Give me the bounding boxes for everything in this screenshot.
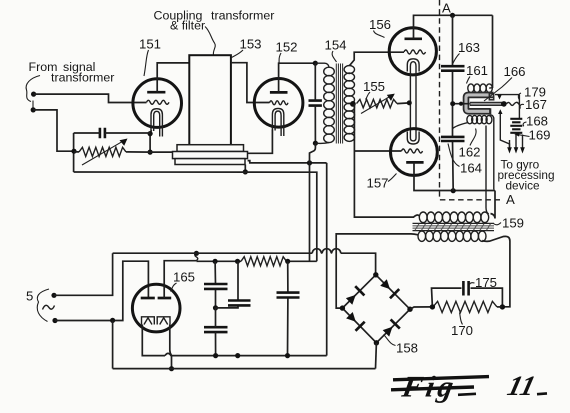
section line A-A dashed <box>440 0 503 200</box>
svg-text:transformer: transformer <box>211 9 274 23</box>
plate of V156 <box>405 37 423 40</box>
capacitor (grid RC) plates <box>100 128 105 139</box>
arrow of R155 <box>361 96 391 114</box>
svg-text:165: 165 <box>173 270 195 285</box>
svg-text:156: 156 <box>369 17 391 32</box>
node resistor right junction <box>148 150 153 155</box>
input brace <box>26 76 40 108</box>
output arrows to gyro <box>510 135 523 149</box>
transformer T154 primary coil <box>324 67 335 142</box>
diode bottom-right <box>383 327 393 337</box>
node chain junction <box>213 305 218 310</box>
leader 162 <box>470 129 476 146</box>
cathode of V151 <box>151 109 162 137</box>
svg-text:152: 152 <box>276 40 298 55</box>
wire AC2 tap down to ground bus <box>112 321 114 369</box>
leader 165 <box>171 283 177 292</box>
wire input2 to RC left node <box>33 110 74 151</box>
wire filament right leg to ground <box>170 325 172 369</box>
node bridge right <box>407 307 412 312</box>
wire box153 right to grid 152 <box>231 63 270 103</box>
diode top-left <box>346 295 356 305</box>
wire cap branch <box>74 132 151 134</box>
svg-text:170: 170 <box>451 323 473 338</box>
wire RC right jog <box>497 306 502 308</box>
leader 163 <box>453 54 460 64</box>
cathode of V152 <box>272 108 283 136</box>
leader 164 <box>448 144 460 167</box>
wire inner vertical to T159 <box>486 126 489 215</box>
wire primary bottom lead <box>315 142 329 145</box>
node row junction 1 <box>213 259 218 264</box>
leader 170 <box>460 313 463 325</box>
node bus squiggle junction <box>194 251 199 256</box>
node T154 center tap <box>350 101 356 107</box>
svg-text:153: 153 <box>240 37 262 52</box>
winding 161 (E-pickoff top coil) <box>468 84 493 93</box>
wire plate V157 to right <box>414 162 495 190</box>
leader 155 <box>366 92 371 100</box>
filter base slab 3 <box>175 159 245 165</box>
AC brace <box>37 289 49 322</box>
wire bridge right to RC <box>410 307 432 309</box>
svg-text:151: 151 <box>139 37 161 52</box>
wire RC right node to filter base <box>150 151 175 153</box>
wire T159 bottom right down <box>482 236 510 306</box>
winding 162 (E-pickoff bottom coil) <box>467 115 492 123</box>
leader 166 <box>484 78 512 102</box>
wire secondary top to grid 156 <box>349 52 404 66</box>
top bus (AC1 / plate) <box>113 253 376 275</box>
wire winding162 left end to column <box>453 123 468 129</box>
leader 158 <box>384 335 396 346</box>
wire cathode V151 down <box>150 130 151 152</box>
leader 175 <box>470 283 475 285</box>
svg-text:175: 175 <box>475 275 497 290</box>
node armature-column junction <box>450 101 455 106</box>
node bridge bottom <box>374 340 379 345</box>
svg-text:155: 155 <box>363 79 385 94</box>
potentiometer R155 <box>357 99 398 107</box>
left plate of V165 <box>141 297 155 300</box>
svg-text:A: A <box>442 1 451 16</box>
svg-text:154: 154 <box>325 38 347 53</box>
filament V165 right <box>157 317 170 325</box>
diode bottom-left <box>346 312 356 322</box>
svg-text:162: 162 <box>459 145 481 160</box>
B+ bus from filter base <box>248 161 327 356</box>
grid of V151 <box>147 100 170 104</box>
hop over right leg <box>165 353 327 355</box>
filter capacitor chain 3 <box>287 261 289 355</box>
wire cathode V152 to filter base <box>248 130 273 154</box>
filter base slab 2 <box>173 152 248 159</box>
wire center tap down to T159 primary <box>354 104 419 217</box>
wire to pile <box>518 95 520 119</box>
leader coupling transformer <box>205 27 215 56</box>
leader 159 <box>494 223 502 225</box>
cathode capsule V156/V157 <box>410 62 416 141</box>
gap arrow lower (up) <box>498 109 502 114</box>
node T154 primary bottom <box>313 141 318 146</box>
wire plate V152 up to node <box>279 63 316 92</box>
E-pickoff 166 core <box>466 95 494 111</box>
svg-text:169: 169 <box>529 128 551 143</box>
svg-text:159: 159 <box>502 216 524 231</box>
transformer T154 core <box>336 64 342 144</box>
plate of V151 <box>147 91 165 94</box>
wire bridge bottom to ground bus <box>375 343 378 369</box>
grid of V152 <box>270 101 289 105</box>
diode top-right <box>380 279 390 289</box>
transformer T159 top coil <box>419 212 488 223</box>
node AC terminal 1 <box>51 293 56 298</box>
node bridge left <box>340 305 345 310</box>
node input terminal 2 <box>31 107 36 112</box>
resistor filter row <box>241 257 287 266</box>
leader 167 <box>520 104 524 108</box>
filter row bus <box>196 260 316 262</box>
RC network 175/170 <box>432 288 503 307</box>
right column wire from top bus <box>492 15 494 88</box>
node row junction 2 <box>235 259 240 264</box>
wire plate V151 to box 153 <box>157 63 189 92</box>
ground bus upper <box>74 172 317 261</box>
leader 157 <box>388 174 397 182</box>
node cathodes-R155 junction <box>407 100 412 105</box>
RC loop left side <box>73 133 75 172</box>
leader 151 <box>144 50 149 76</box>
capacitor chain1 lower <box>204 327 228 332</box>
leader 161 <box>467 77 471 84</box>
node AC terminal 2 <box>52 318 57 323</box>
wire R155 to cathodes <box>397 102 409 105</box>
svg-text:& filter: & filter <box>170 19 205 33</box>
svg-text:167: 167 <box>525 97 547 112</box>
wire AC1 to top bus <box>54 253 113 295</box>
plate of V152 <box>270 91 288 94</box>
capacitor 163 <box>441 66 465 71</box>
svg-text:5: 5 <box>26 289 33 304</box>
svg-text:157: 157 <box>367 176 389 191</box>
wire input1 to grid 151 <box>34 94 147 102</box>
svg-text:transformer: transformer <box>51 71 114 85</box>
squiggle bus link <box>195 253 198 260</box>
capacitor chain1 upper <box>204 284 228 289</box>
transformer T154 secondary coil <box>344 66 354 142</box>
capacitor across T154 primary <box>309 101 322 106</box>
filter capacitor chain 1 top <box>214 261 216 308</box>
node T154 primary top <box>313 61 318 66</box>
filament V165 left <box>142 317 155 325</box>
node cathode-cap junction <box>148 131 153 136</box>
node RC left <box>71 149 76 154</box>
node chain1 ground <box>213 353 218 358</box>
wire RC resistor row <box>74 151 150 153</box>
node left column bottom junction <box>451 188 456 193</box>
wire cap vertical <box>314 63 316 143</box>
svg-text:A: A <box>506 192 515 207</box>
node top bus junction <box>450 13 455 18</box>
left column wire (caps 163/164) <box>452 15 455 190</box>
box 153 coupling transformer <box>189 55 231 146</box>
svg-text:Fig: Fig <box>399 370 460 404</box>
capacitor chain2 <box>228 301 251 306</box>
hop 1 <box>312 249 321 254</box>
wire right plate to top bus <box>164 261 196 298</box>
svg-text:163: 163 <box>458 40 480 55</box>
wire chain2 link <box>216 261 239 308</box>
wire AC2 to plate circuit <box>55 261 148 320</box>
node input terminal 1 <box>31 92 36 97</box>
filter base slab 1 <box>177 145 244 152</box>
ground bus lower <box>113 368 376 370</box>
node AC2 ground tap <box>110 318 115 323</box>
svg-text:168: 168 <box>526 114 548 129</box>
wire secondary bottom to grid 157 <box>354 150 401 152</box>
wire chain1 lower <box>215 308 217 356</box>
leader 154 <box>332 51 336 62</box>
label: From signal transformer <box>29 60 115 85</box>
node filament ground junction <box>169 366 174 371</box>
transformer T159 core <box>413 223 495 230</box>
node chain3 ground <box>285 353 290 358</box>
tube V152 envelope <box>254 79 303 128</box>
node chain2 ground <box>235 353 240 358</box>
capacitor chain3 <box>277 293 300 298</box>
tube V156 envelope <box>389 28 436 75</box>
variable resistor (grid leak) <box>79 147 126 156</box>
bridge rectifier 158 <box>342 275 410 343</box>
svg-text:161: 161 <box>466 63 488 78</box>
capacitor 175 <box>463 281 468 296</box>
cathode outer arch V156 <box>407 59 419 72</box>
tube V157 envelope <box>391 129 438 176</box>
grid of V157 <box>402 149 423 153</box>
stub slab to ground bus <box>244 165 246 172</box>
leader 156 <box>374 31 385 38</box>
node RC left <box>430 304 435 309</box>
hop 2 <box>322 249 331 254</box>
node bridge top <box>373 272 378 277</box>
right plate of V165 <box>158 297 172 300</box>
wire filament left leg to heater bus <box>142 325 165 356</box>
leader arrow 169 <box>519 135 530 137</box>
Fig. 11 caption <box>391 377 547 395</box>
squiggle armature output <box>507 102 520 105</box>
wire primary top lead <box>315 63 329 67</box>
hop 3 <box>332 249 341 254</box>
tube V151 envelope <box>133 79 182 128</box>
node slab-bus junction <box>243 169 248 174</box>
wire winding162 right end down <box>489 115 494 189</box>
node RC right <box>500 304 505 309</box>
armature pivot ball <box>501 101 507 107</box>
svg-text:164: 164 <box>460 161 482 176</box>
arrow through variable resistor <box>82 141 124 165</box>
leader 153 <box>232 50 244 58</box>
wire armature to left column <box>453 103 470 105</box>
gap arrow upper (down) <box>495 94 519 96</box>
plate of V157 <box>406 161 423 164</box>
svg-text:158: 158 <box>396 341 418 356</box>
leader 168 <box>523 122 526 126</box>
grid of V156 <box>404 50 426 54</box>
transformer T159 bottom coil <box>418 231 486 241</box>
resistor 170 <box>433 301 497 312</box>
cathode outer arch V157 <box>407 132 419 145</box>
wire B+ to T154 primary bottom <box>310 143 316 261</box>
tube V165 envelope <box>132 284 180 332</box>
node B+ junction <box>307 160 312 165</box>
AC tilde <box>43 305 55 309</box>
node row junction 3 <box>285 259 290 264</box>
wire T159 top right to plate bus <box>491 191 496 219</box>
leader 152 <box>279 53 281 64</box>
capacitor 164 <box>441 137 465 141</box>
svg-text:device: device <box>506 179 541 193</box>
armature 166 <box>470 102 503 106</box>
leader 179 <box>518 93 521 100</box>
flexible pile 168 <box>510 119 522 133</box>
svg-text:166: 166 <box>504 64 526 79</box>
wire T159 bottom left to bridge <box>336 234 418 308</box>
wire plate V156 to top bus <box>414 15 493 39</box>
